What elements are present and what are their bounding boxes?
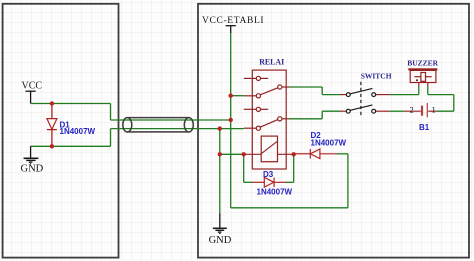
svg-text:D3: D3 [263, 170, 274, 179]
svg-text:1N4007W: 1N4007W [257, 187, 293, 196]
svg-text:1: 1 [432, 104, 436, 114]
svg-text:GND: GND [21, 164, 44, 175]
svg-text:SWITCH: SWITCH [361, 72, 392, 81]
svg-text:1N4007W: 1N4007W [311, 138, 347, 147]
svg-text:VCC: VCC [22, 81, 43, 92]
svg-text:RELAI: RELAI [259, 57, 284, 66]
svg-text:2: 2 [410, 104, 414, 114]
svg-text:GND: GND [209, 235, 232, 246]
svg-text:1N4007W: 1N4007W [60, 127, 96, 136]
svg-text:B1: B1 [419, 123, 430, 132]
svg-text:VCC-ETABLI: VCC-ETABLI [202, 16, 264, 26]
svg-text:BUZZER: BUZZER [407, 59, 438, 68]
